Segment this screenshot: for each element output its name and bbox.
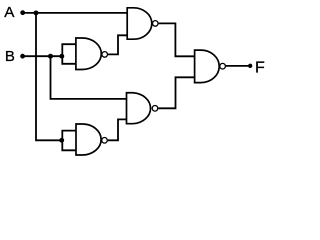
nand U3 body [127, 93, 151, 124]
nand U1 bubble [102, 52, 108, 58]
wire B vertical drop to U3 top input [51, 56, 127, 99]
junction at U1 splitter [59, 54, 64, 59]
nand U5 bubble [220, 63, 226, 69]
nand U4 body [76, 124, 101, 155]
U4 input splitter [62, 131, 76, 151]
svg-text:A: A [4, 4, 15, 21]
junction on wire A [34, 10, 39, 15]
wire U3 output to U5 lower input [158, 77, 194, 108]
wire B horizontal to U1 splitter [23, 55, 63, 57]
nand U1 body [76, 38, 101, 70]
junction at U4 splitter [59, 138, 64, 143]
U1 input splitter [62, 44, 76, 64]
node F terminal dot [248, 64, 252, 68]
wire U4 output to U3 lower input [108, 119, 127, 140]
wire A horizontal to U2 top input [23, 12, 128, 14]
svg-text:B: B [5, 48, 15, 65]
wire U1 output to U2 lower input [108, 35, 127, 54]
wire U5 output to F [226, 65, 250, 67]
node B terminal dot [20, 54, 25, 59]
nand U2 bubble [153, 21, 159, 27]
wire U2 output to U5 top input [159, 23, 195, 56]
svg-text:F: F [255, 59, 265, 76]
nand U2 body [127, 8, 152, 39]
nand U3 bubble [152, 106, 158, 112]
junction on wire B [48, 54, 53, 59]
nand U5 body [195, 50, 220, 83]
wire A vertical drop to U4 splitter [36, 13, 62, 140]
nand U4 bubble [102, 138, 108, 144]
node A terminal dot [20, 10, 25, 15]
